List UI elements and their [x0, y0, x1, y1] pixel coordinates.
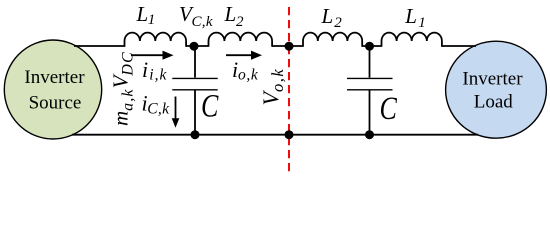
svg-text:Inverter: Inverter — [462, 68, 523, 89]
node bottom right — [365, 130, 374, 139]
inductor L2 left — [209, 33, 273, 47]
svg-text:1: 1 — [148, 12, 156, 28]
wire L2-left to red line — [272, 45, 303, 47]
label L2 right — [321, 4, 343, 31]
node bottom left — [191, 130, 200, 139]
svg-text:1: 1 — [418, 15, 426, 31]
label m_ak V_DC rotated — [109, 51, 137, 126]
inductor L1 left — [125, 33, 187, 47]
current arrow i_ik — [131, 51, 174, 60]
wire between L1 and L2 left — [186, 45, 209, 47]
svg-text:C: C — [380, 91, 398, 126]
inverter source ellipse — [4, 40, 101, 139]
wire between L2 and L1 right — [362, 45, 382, 47]
svg-text:o,k: o,k — [238, 66, 259, 83]
label i_Ck — [142, 91, 171, 118]
svg-text:L: L — [136, 2, 149, 26]
capacitor C left: upper lead — [194, 46, 196, 78]
label i_ik — [142, 57, 167, 84]
capacitor C right: plates — [347, 78, 393, 89]
svg-text:C,k: C,k — [192, 14, 213, 30]
svg-text:i: i — [142, 57, 148, 82]
label L2 left — [224, 2, 245, 30]
node bottom middle — [285, 130, 294, 139]
node top right — [365, 42, 374, 51]
red measurement line Vok — [288, 7, 290, 172]
label i_ok — [232, 57, 259, 84]
svg-text:C,k: C,k — [147, 100, 170, 117]
inverter load ellipse — [446, 41, 547, 138]
capacitor C right: upper lead — [369, 46, 371, 78]
inductor L2 right — [303, 33, 362, 47]
svg-text:L: L — [404, 4, 417, 28]
current arrow i_Ck down — [172, 97, 180, 128]
label L1 right — [404, 4, 425, 31]
svg-text:L: L — [224, 2, 237, 26]
svg-text:2: 2 — [236, 14, 244, 30]
svg-text:L: L — [321, 4, 334, 28]
current arrow i_ok — [226, 51, 262, 60]
wire top left from source — [74, 45, 125, 47]
svg-text:C: C — [201, 89, 219, 124]
wire top right to load — [442, 45, 476, 47]
node Vok top — [285, 42, 294, 51]
capacitor C left: plates — [172, 78, 217, 89]
label L1 left — [136, 2, 156, 28]
capacitor C right: lower lead — [369, 91, 371, 135]
svg-text:Source: Source — [29, 92, 82, 113]
svg-text:Load: Load — [474, 91, 514, 112]
bottom wire — [72, 134, 478, 136]
svg-text:Inverter: Inverter — [24, 67, 85, 88]
label VCk — [179, 2, 213, 30]
svg-text:i,k: i,k — [149, 66, 167, 83]
capacitor C left: lower lead — [194, 91, 196, 135]
svg-text:2: 2 — [334, 15, 342, 31]
label V_ok rotated — [258, 68, 287, 106]
inductor L1 right — [382, 33, 442, 47]
node VCk top — [190, 42, 199, 51]
